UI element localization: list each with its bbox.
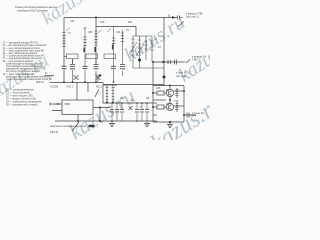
svg-text:к выводу 9 ТВС: к выводу 9 ТВС [186, 11, 203, 15]
capacitor C17 [187, 113, 196, 118]
transistor VT2 [96, 74, 101, 82]
capacitor C11 [110, 103, 114, 121]
svg-text:Напряжения на выводах микросхе: Напряжения на выводах микросхем [50, 124, 86, 128]
svg-text:R31: R31 [128, 21, 133, 24]
capacitor C15 [140, 103, 144, 121]
node A2 junction [72, 81, 74, 83]
node G7 junction [183, 114, 185, 116]
node G6 junction [169, 121, 171, 123]
label U1 [50, 84, 103, 105]
node G1 junction [152, 92, 154, 94]
diode VD1 arrow [172, 16, 176, 19]
capacitor C5 [111, 66, 116, 68]
capacitor C7 coupling [178, 16, 183, 20]
capacitor C12 [115, 103, 119, 121]
resistor R44 hatched [174, 102, 184, 112]
svg-text:С42 1: С42 1 [66, 84, 74, 88]
transistor VT1 [73, 59, 79, 82]
resistor R21 ladder [106, 85, 109, 103]
svg-text:8В: 8В [166, 89, 169, 92]
caption note [50, 124, 86, 134]
capacitor C8 [168, 60, 171, 64]
svg-text:С28: С28 [88, 31, 93, 34]
ground symbol output stage [167, 122, 173, 128]
svg-text:телевизоров ЗУСЦТ (окончание): телевизоров ЗУСЦТ (окончание) [17, 9, 48, 13]
svg-text:(см. рис): (см. рис) [176, 75, 186, 78]
input arrow [57, 103, 60, 105]
wire filter bottom bus [103, 120, 157, 122]
label input [45, 72, 48, 75]
wire left rail of output stage [153, 62, 184, 122]
wire second bus [96, 27, 136, 37]
node A3 junction [84, 81, 86, 83]
label pointer T1 [66, 28, 70, 32]
node F2 junction [112, 101, 114, 103]
wire module feeds [77, 83, 99, 101]
node G0 junction [152, 61, 154, 63]
transistor VT5 [129, 106, 133, 110]
svg-text:ТВС-1: ТВС-1 [192, 57, 201, 61]
svg-text:25 — выпрямитель сетевой.: 25 — выпрямитель сетевой. [6, 103, 38, 107]
wire mid-right feed [152, 61, 185, 63]
node D junction [99, 74, 101, 76]
inductor L3 [121, 30, 124, 76]
transformer T1 winding [62, 33, 65, 47]
wire output to TVS pin 9 [169, 15, 177, 18]
label pointer [178, 22, 184, 27]
inductor L2 [112, 27, 115, 83]
svg-text:к плате КЦ: к плате КЦ [192, 112, 204, 115]
capacitor C14 [135, 103, 139, 121]
capacitor C1 [62, 66, 67, 68]
resistor R13 [104, 54, 116, 59]
svg-text:2В: 2В [166, 103, 169, 106]
wire filter top bus [103, 102, 157, 104]
node C junction right rail [163, 76, 166, 79]
svg-text:схема соединения с кинескопом: схема соединения с кинескопом блока БР [6, 77, 52, 81]
resistor R12 [86, 54, 98, 59]
svg-text:С31: С31 [116, 31, 121, 34]
svg-text:R2,2: R2,2 [96, 84, 103, 88]
ground symbol filter right [144, 121, 150, 127]
diode VD2 arrow [163, 61, 167, 64]
capacitor C3 [83, 66, 88, 82]
svg-text:4,5/2В: 4,5/2В [50, 84, 58, 88]
labels output stage [176, 71, 204, 115]
node A4 junction [95, 81, 97, 83]
resistor R42 [153, 105, 167, 109]
wire module inputs [50, 103, 62, 111]
wire ground return bus [55, 120, 103, 122]
node G4 junction [183, 90, 185, 92]
node H1 junction [99, 107, 101, 109]
capacitor C6 [120, 64, 125, 68]
label to TVS pin 9 [186, 11, 203, 18]
ground symbol filter [109, 121, 115, 127]
wire output stage bottom [153, 115, 196, 122]
node F1 junction [106, 101, 108, 103]
capacitor C2 [70, 59, 75, 74]
resistor R43 hatched [174, 88, 184, 98]
resistor R22 ladder [112, 85, 115, 103]
wire middle rail node B [95, 18, 97, 83]
component reference labels [68, 20, 179, 106]
node A1 junction [63, 81, 65, 83]
svg-text:ТВ-2 В: ТВ-2 В [50, 130, 58, 134]
pointer diagonal mark [72, 122, 79, 131]
svg-text:(см. рис.1): (см. рис.1) [186, 15, 199, 19]
capacitor C4 [94, 59, 99, 69]
node G3 junction [169, 85, 171, 87]
IC U1 module box [62, 100, 93, 115]
caption highlight mark [89, 125, 95, 127]
svg-text:С25: С25 [100, 21, 105, 24]
wire +B top supply bus [64, 17, 171, 19]
node H2 junction [99, 120, 101, 122]
filter bus junctions [111, 102, 148, 122]
label to TVS pin 16 [192, 54, 207, 61]
capacitor C9 [175, 60, 191, 65]
wire module output [78, 108, 110, 122]
capacitor C13 [120, 103, 124, 121]
node G5 junction [169, 99, 171, 101]
transformer T2 winding [94, 31, 97, 52]
svg-text:VT9: VT9 [174, 100, 179, 103]
node G2 junction [152, 106, 154, 108]
wire right rail to node C [163, 18, 165, 86]
transformer T5 multi-winding [129, 36, 164, 68]
wire left rail node A [63, 18, 65, 83]
resistor R11 [64, 54, 78, 59]
inductor L4 [150, 36, 153, 62]
svg-text:VD7: VD7 [120, 97, 125, 100]
node E junction T5 tap [138, 59, 141, 62]
label pointer L2 [107, 29, 111, 33]
node B junction on top bus [95, 17, 97, 19]
node H3 junction [77, 120, 79, 122]
value labels C R [110, 107, 142, 109]
wire input stub [44, 75, 54, 77]
svg-text:УМ8: УМ8 [64, 102, 71, 106]
transistor VT3 [153, 86, 184, 97]
svg-text:С21: С21 [70, 20, 75, 23]
node A5 junction [113, 81, 115, 83]
transistor VT4 [153, 97, 174, 111]
resistor R41 [153, 91, 167, 95]
capacitor C16 [145, 103, 149, 121]
inductor L1 [83, 28, 86, 66]
wire lower bus [50, 83, 164, 85]
svg-text:R45: R45 [156, 87, 161, 90]
wire ladder frame [103, 85, 117, 103]
label pointer T2 [98, 30, 102, 34]
svg-text:(БР-2): (БР-2) [36, 80, 44, 84]
